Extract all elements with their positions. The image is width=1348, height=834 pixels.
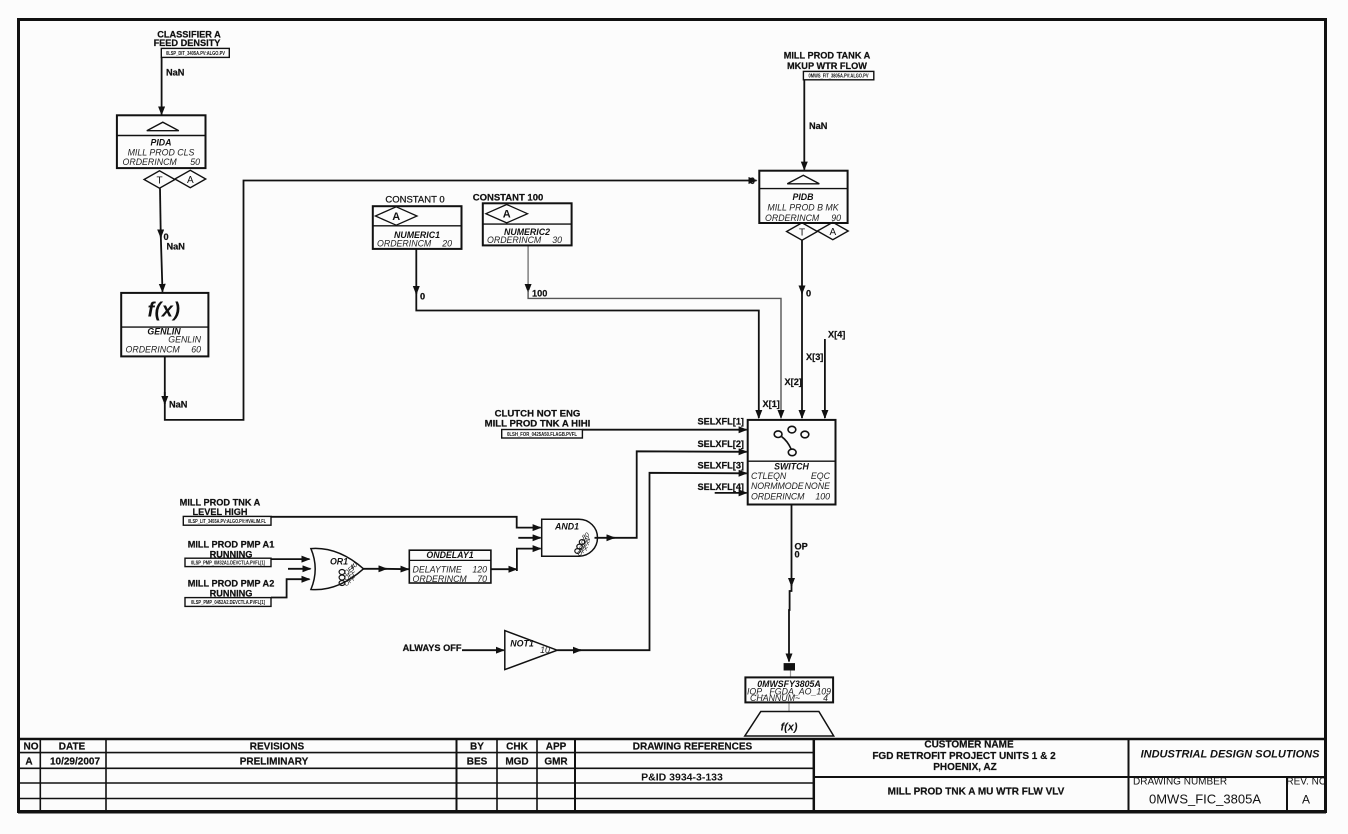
svg-text:RUNNING: RUNNING xyxy=(210,549,253,559)
svg-text:ORDERINCM: ORDERINCM xyxy=(377,238,432,248)
svg-text:CONSTANT 100: CONSTANT 100 xyxy=(473,193,544,204)
svg-text:NORMMODE: NORMMODE xyxy=(751,481,804,491)
svg-text:SWITCH: SWITCH xyxy=(774,461,809,471)
svg-text:X[1]: X[1] xyxy=(763,399,780,409)
svg-text:SELXFL[1]: SELXFL[1] xyxy=(698,417,744,427)
svg-text:ONDELAY1: ONDELAY1 xyxy=(426,550,473,560)
svg-text:T: T xyxy=(156,176,162,187)
svg-text:A: A xyxy=(829,227,836,238)
svg-text:CHK: CHK xyxy=(506,741,528,752)
svg-text:T: T xyxy=(799,228,805,239)
svg-text:f(x): f(x) xyxy=(147,300,180,322)
svg-text:CUSTOMER NAME: CUSTOMER NAME xyxy=(924,740,1014,751)
svg-text:X[3]: X[3] xyxy=(806,352,823,362)
svg-text:RUNNING: RUNNING xyxy=(210,588,253,598)
svg-text:30: 30 xyxy=(552,235,562,245)
svg-text:NONE: NONE xyxy=(805,481,831,491)
svg-text:SELXFL[3]: SELXFL[3] xyxy=(698,461,744,471)
svg-text:CTLEQN: CTLEQN xyxy=(751,471,787,481)
svg-text:DRAWING REFERENCES: DRAWING REFERENCES xyxy=(633,741,753,752)
svg-text:DRAWING NUMBER: DRAWING NUMBER xyxy=(1133,776,1227,787)
svg-text:PIDA: PIDA xyxy=(150,138,171,148)
svg-text:A: A xyxy=(503,209,511,221)
svg-text:SELXFL[2]: SELXFL[2] xyxy=(698,439,744,449)
svg-text:20: 20 xyxy=(441,238,452,248)
svg-text:LEVEL HIGH: LEVEL HIGH xyxy=(193,507,248,517)
svg-text:GENLIN: GENLIN xyxy=(168,335,201,345)
svg-text:MILL PROD TNK A: MILL PROD TNK A xyxy=(180,497,261,507)
svg-text:FEED DENSITY: FEED DENSITY xyxy=(154,38,221,48)
svg-text:X[2]: X[2] xyxy=(785,377,802,387)
svg-text:MILL PROD PMP A2: MILL PROD PMP A2 xyxy=(188,578,275,588)
svg-text:SELXFL[4]: SELXFL[4] xyxy=(698,482,744,492)
svg-text:ORDERINCM: ORDERINCM xyxy=(751,491,805,501)
svg-text:60: 60 xyxy=(191,345,201,355)
svg-text:P&ID 3934-3-133: P&ID 3934-3-133 xyxy=(641,772,723,784)
svg-text:A: A xyxy=(25,757,32,768)
svg-text:MILL PROD CLS: MILL PROD CLS xyxy=(128,148,195,158)
svg-text:CHANNUM~: CHANNUM~ xyxy=(750,693,800,703)
svg-text:0: 0 xyxy=(806,289,811,299)
svg-text:REV. NO: REV. NO xyxy=(1286,776,1326,787)
svg-text:0LSP_PMP_0M32A1.DEVCTLA.PVFL[1: 0LSP_PMP_0M32A1.DEVCTLA.PVFL[1] xyxy=(191,561,265,567)
svg-text:EQC: EQC xyxy=(811,471,831,481)
svg-text:0: 0 xyxy=(795,550,800,560)
svg-text:MILL PROD B MK: MILL PROD B MK xyxy=(767,203,839,213)
svg-text:A: A xyxy=(187,175,194,186)
svg-text:PRELIMINARY: PRELIMINARY xyxy=(240,757,309,768)
svg-text:ALWAYS OFF: ALWAYS OFF xyxy=(403,643,462,653)
svg-text:NOT1: NOT1 xyxy=(510,639,534,649)
svg-text:ORDERINCM: ORDERINCM xyxy=(487,235,542,245)
svg-text:BY: BY xyxy=(470,741,484,752)
svg-text:GMR: GMR xyxy=(544,757,568,768)
svg-text:NaN: NaN xyxy=(169,400,188,410)
svg-text:0LSP_LIT_3455A.PV:ALGO.PV:HVAL: 0LSP_LIT_3455A.PV:ALGO.PV:HVALIM.FL xyxy=(188,519,266,525)
svg-text:MILL PROD TNK A HIHI: MILL PROD TNK A HIHI xyxy=(485,419,591,430)
svg-text:AND1: AND1 xyxy=(554,522,579,532)
svg-text:PIDB: PIDB xyxy=(792,192,814,202)
svg-text:10/29/2007: 10/29/2007 xyxy=(50,757,100,768)
svg-text:100: 100 xyxy=(815,491,830,501)
svg-text:0MWS_FIT_3805A.PV:ALGO.PV: 0MWS_FIT_3805A.PV:ALGO.PV xyxy=(809,73,870,79)
svg-text:MILL PROD PMP A1: MILL PROD PMP A1 xyxy=(188,539,275,549)
svg-text:BES: BES xyxy=(467,757,488,768)
svg-text:0: 0 xyxy=(750,176,755,186)
svg-text:REVISIONS: REVISIONS xyxy=(250,741,305,752)
svg-text:A: A xyxy=(1302,793,1310,807)
svg-text:X[4]: X[4] xyxy=(828,330,845,340)
svg-text:50: 50 xyxy=(190,157,200,167)
svg-text:APP: APP xyxy=(546,741,567,752)
svg-text:INDUSTRIAL DESIGN SOLUTIONS: INDUSTRIAL DESIGN SOLUTIONS xyxy=(1141,749,1321,761)
svg-text:ORDERINCM: ORDERINCM xyxy=(123,157,178,167)
svg-text:ORDERINCM: ORDERINCM xyxy=(413,574,468,584)
svg-text:PHOENIX, AZ: PHOENIX, AZ xyxy=(933,762,997,773)
svg-text:70: 70 xyxy=(477,574,487,584)
svg-text:90: 90 xyxy=(831,213,841,223)
svg-text:NaN: NaN xyxy=(809,121,828,131)
svg-text:DATE: DATE xyxy=(59,741,86,752)
svg-text:ORDERINCM: ORDERINCM xyxy=(765,213,820,223)
svg-text:0: 0 xyxy=(420,292,425,302)
svg-text:FGD RETROFIT PROJECT UNITS 1 &: FGD RETROFIT PROJECT UNITS 1 & 2 xyxy=(872,751,1056,762)
svg-text:f(x): f(x) xyxy=(780,722,797,734)
svg-text:A: A xyxy=(392,211,400,223)
svg-text:0LSP_DIT_3405A.PV:ALGO.PV: 0LSP_DIT_3405A.PV:ALGO.PV xyxy=(166,51,226,57)
svg-text:NO: NO xyxy=(24,741,39,752)
svg-text:10: 10 xyxy=(540,645,550,655)
svg-text:0: 0 xyxy=(164,232,169,242)
svg-text:ORDERINCM: ORDERINCM xyxy=(126,345,181,355)
svg-text:0MWS_FIC_3805A: 0MWS_FIC_3805A xyxy=(1149,792,1261,807)
svg-text:MILL PROD TNK A MU WTR FLW VLV: MILL PROD TNK A MU WTR FLW VLV xyxy=(888,787,1065,798)
svg-text:OR1: OR1 xyxy=(330,557,348,567)
svg-text:NaN: NaN xyxy=(166,68,185,78)
svg-text:0LSP_PMP_0452A2.DEVCTLA.PVFL[1: 0LSP_PMP_0452A2.DEVCTLA.PVFL[1] xyxy=(191,600,265,606)
svg-text:MKUP WTR FLOW: MKUP WTR FLOW xyxy=(787,61,867,71)
svg-text:4: 4 xyxy=(823,693,828,703)
svg-text:NaN: NaN xyxy=(167,242,186,252)
svg-text:CONSTANT 0: CONSTANT 0 xyxy=(385,195,444,206)
svg-text:MGD: MGD xyxy=(505,757,528,768)
svg-text:MILL PROD TANK A: MILL PROD TANK A xyxy=(784,51,871,61)
svg-text:0LSH_FOR_0425A50.FLAGB.PVFL: 0LSH_FOR_0425A50.FLAGB.PVFL xyxy=(507,432,577,438)
svg-text:100: 100 xyxy=(532,289,547,299)
